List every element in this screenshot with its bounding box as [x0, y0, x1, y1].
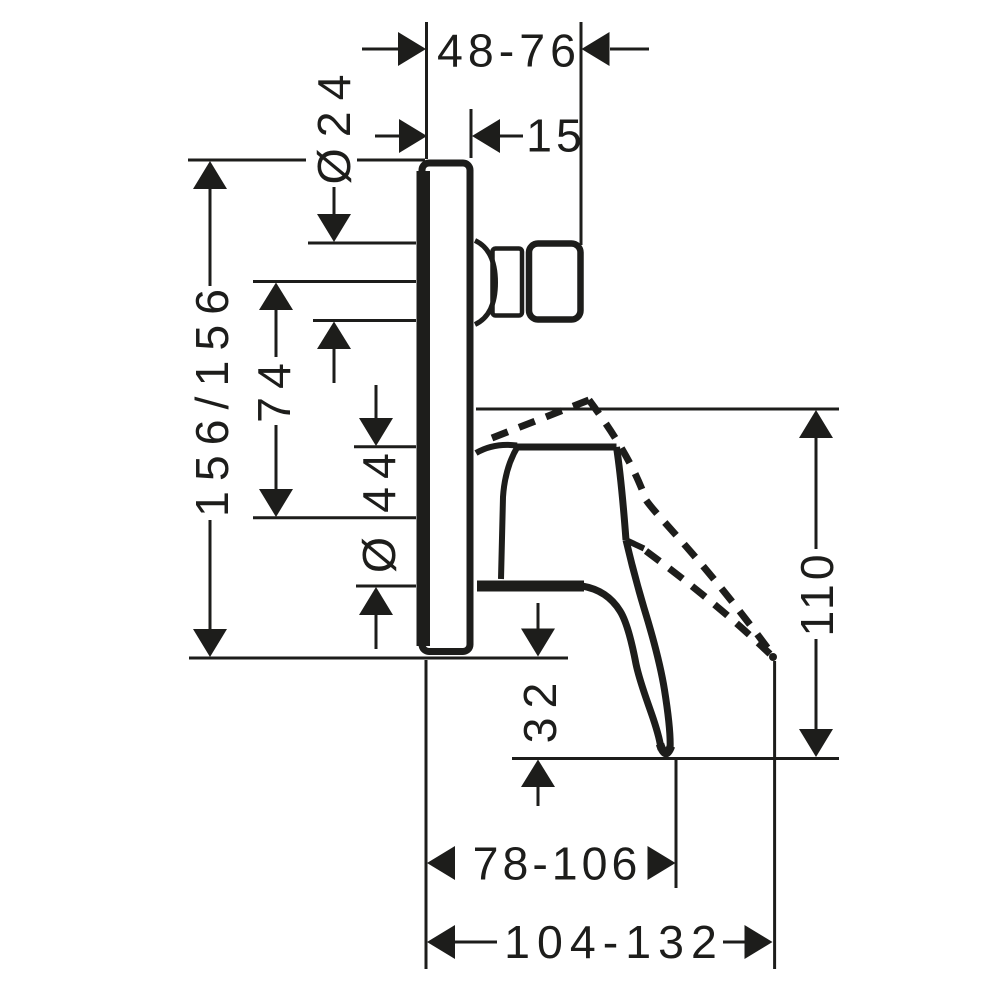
- dimension 110: [799, 410, 833, 757]
- extension line bottom of connector (y=320.5): [313, 319, 416, 322]
- handle bottom band: [477, 581, 584, 592]
- svg-text:78-106: 78-106: [473, 838, 642, 890]
- svg-text:32: 32: [514, 674, 566, 744]
- extension line left of dim 48-76 (x=426.5 top): [425, 22, 428, 159]
- extension line solid handle tip (x=676): [675, 760, 678, 888]
- handle tip: [660, 744, 671, 753]
- svg-text:74: 74: [248, 355, 300, 423]
- handle body left edge: [501, 446, 518, 579]
- svg-text:44: 44: [353, 445, 405, 513]
- svg-text:48-76: 48-76: [437, 25, 581, 77]
- extension line bottom of plate (y=658): [189, 657, 568, 660]
- dashed handle outer edge (open position): [589, 400, 772, 654]
- handle cap top edge: [476, 445, 517, 453]
- dashed handle tip dot: [769, 653, 777, 661]
- extension line bottom of handle cap (y=586): [356, 585, 416, 588]
- extension line top of plate (y=160): [188, 159, 306, 162]
- escutcheon plate outline: [422, 163, 470, 652]
- dimension 74: [259, 283, 293, 518]
- handle grip inner edge: [582, 586, 661, 750]
- svg-text:Ø24: Ø24: [308, 64, 360, 185]
- svg-text:110: 110: [791, 550, 843, 636]
- connector bulge (half dome on plate): [475, 241, 496, 325]
- extension line dashed handle tip (x=774.6): [773, 661, 776, 969]
- extension line connector centerline (y=281.5): [253, 280, 416, 283]
- connector ring: [493, 249, 523, 316]
- dashed handle top edge (open position): [492, 400, 589, 438]
- extension line left bottom (x=426): [425, 660, 428, 969]
- dimension 156/156: [193, 161, 227, 657]
- svg-text:156/156: 156/156: [186, 279, 238, 517]
- handle body top edge: [517, 444, 617, 451]
- dimension 104-132: [427, 925, 773, 959]
- connector nut: [529, 244, 581, 320]
- handle body right edge: [617, 447, 627, 540]
- svg-text:Ø: Ø: [353, 537, 405, 573]
- extension line right of dim 15 (x=471): [470, 109, 473, 158]
- dimension 32: [521, 603, 555, 806]
- svg-text:15: 15: [526, 110, 586, 162]
- svg-text:104-132: 104-132: [504, 916, 724, 968]
- extension line right of dim 48-76 (x=581 top): [580, 22, 583, 245]
- extension line handle tip level (y=758.5): [512, 757, 839, 760]
- handle grip outer edge: [626, 540, 670, 750]
- dashed handle inner edge (open position): [646, 551, 770, 654]
- extension line top of connector (y=243): [308, 242, 416, 245]
- dimension 48-76: [362, 32, 649, 66]
- dimension Ø24: [317, 187, 351, 383]
- dimension 78-106: [427, 846, 676, 880]
- handle pivot notch tick: [628, 541, 644, 549]
- dimension 15: [375, 119, 523, 153]
- extension line top of handle cap (y=446.7): [354, 445, 416, 448]
- wall flange heavy bar: [417, 171, 431, 646]
- extension line handle top level (y=409): [476, 408, 839, 411]
- dimension Ø44: [359, 385, 393, 649]
- extension line handle pivot (y=517.7): [253, 516, 416, 519]
